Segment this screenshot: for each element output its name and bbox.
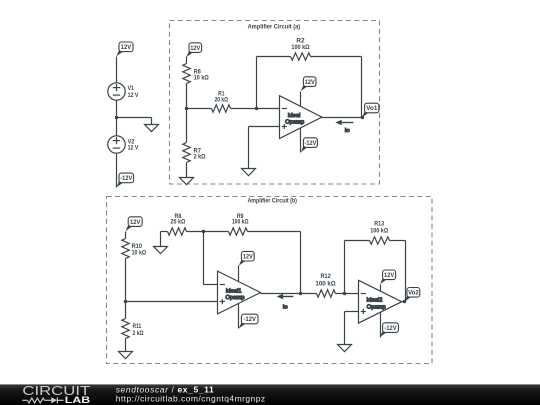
label V1 / 12 V [128, 86, 139, 99]
resistor R1 [212, 105, 231, 112]
svg-text:12V: 12V [130, 220, 140, 226]
label R9 / 100 kΩ [232, 214, 249, 226]
svg-text:io: io [345, 128, 351, 134]
wire: V1 to node A [116, 101, 118, 136]
label R6 / 10 kΩ [194, 70, 209, 82]
wire: Ideal2 negative supply [380, 313, 382, 338]
svg-text:Amplifier Circuit (a): Amplifier Circuit (a) [248, 23, 301, 30]
ground (R11) [119, 352, 133, 359]
wire: node D down to Ideal1 inverting input [203, 232, 205, 285]
op-amp Ideal2 [359, 280, 402, 323]
resistor R6 [183, 64, 190, 84]
dashed box: Amplifier Circuit (a) [170, 21, 380, 185]
label R10 / 10 kΩ [132, 244, 147, 256]
CircuitLab logo: resistor-diode glyph [22, 397, 63, 403]
resistor R8 [168, 228, 187, 235]
svg-text:12V: 12V [384, 273, 394, 279]
wire: R8 to node D [187, 231, 204, 233]
svg-text:R10: R10 [132, 244, 143, 250]
resistor R2 [291, 53, 311, 60]
resistor R13 [370, 237, 390, 244]
net flag -12V (Ideal2 V-) [380, 323, 398, 337]
wire: Ideal2 output stub [402, 301, 406, 303]
svg-text:Ideal2: Ideal2 [367, 297, 383, 303]
svg-text:25 kΩ: 25 kΩ [170, 219, 185, 225]
svg-text:Ideal: Ideal [288, 113, 301, 119]
net flag 12V (V1) [116, 42, 133, 56]
voltage source V2 [108, 136, 125, 153]
current arrow io (circuit a) [335, 120, 353, 134]
resistor R9 [229, 228, 248, 235]
svg-text:12V: 12V [121, 45, 131, 51]
wire: node B to R1 [187, 108, 212, 110]
wire: R12 to node E [336, 293, 359, 295]
wire: U1 positive supply [300, 92, 302, 107]
svg-text:-12V: -12V [384, 326, 396, 332]
svg-text:10 kΩ: 10 kΩ [194, 76, 209, 82]
wire: Ideal2 noninverting input to ground [345, 311, 359, 313]
wire: node D to R9 [204, 231, 229, 233]
dashed box: Amplifier Circuit (b) [107, 197, 433, 364]
wire: R2 to output node [311, 56, 362, 58]
net flag Vo1 [362, 103, 379, 117]
wire: Ideal2 positive supply [380, 285, 382, 292]
wire: R11 to ground [125, 339, 127, 352]
ground (U1 noninverting input) [242, 169, 256, 176]
label R11 / 2 kΩ [133, 324, 144, 337]
op-amp Ideal1 [218, 271, 261, 314]
svg-text:Amplifier Circuit (b): Amplifier Circuit (b) [247, 197, 297, 204]
svg-text:io: io [283, 304, 289, 310]
node: Ideal1 output / R9 feedback [299, 292, 302, 295]
node Vo2 junction [403, 300, 406, 303]
svg-text:2 kΩ: 2 kΩ [194, 155, 206, 161]
wire: Ideal1 output to R12 [261, 293, 317, 295]
wire: U1 negative supply [300, 128, 302, 153]
svg-text:100 kΩ: 100 kΩ [291, 45, 309, 51]
net flag -12V (U1 V-) [301, 138, 318, 152]
wire: R1 to op-amp inverting input [231, 108, 280, 110]
wire: R6 to node B [186, 84, 188, 109]
net flag -12V (V2) [116, 173, 133, 187]
ground (R8) [154, 247, 168, 254]
svg-text:2 kΩ: 2 kΩ [133, 331, 144, 337]
wire: node B to R7 [186, 109, 188, 143]
wire: ground stub to R8 [160, 232, 162, 247]
net flag Vo2 [404, 288, 419, 302]
svg-text:-12V: -12V [120, 176, 132, 182]
node B (R6/R7/R1 junction) [185, 107, 188, 110]
wire: R7 to ground [186, 163, 188, 178]
wire: V2 to -12V flag [116, 154, 118, 188]
label V2 / 12 V [128, 140, 139, 152]
wire: op-amp noninverting input to ground [249, 126, 280, 128]
wire: 12V flag to R10 [125, 232, 127, 239]
wire: R9 to feedback drop [248, 231, 301, 233]
net flag 12V (Ideal2 V+) [380, 270, 396, 284]
node E (R12/R13/Ideal2 inverting) [343, 292, 346, 295]
net flag 12V (R10) [126, 217, 143, 231]
svg-text:100 kΩ: 100 kΩ [315, 281, 335, 287]
resistor R12 [317, 290, 336, 297]
current arrow io (circuit b) [277, 294, 294, 311]
wire: node C to R11 [125, 302, 127, 319]
net flag -12V (Ideal1 V-) [239, 314, 258, 328]
svg-text:R7: R7 [194, 148, 202, 154]
label R13 / 100 kΩ [370, 221, 388, 234]
svg-text:Opamp: Opamp [285, 119, 304, 125]
wire: node E up to R13 [344, 241, 346, 294]
ground (node A) [145, 125, 159, 132]
resistor R7 [183, 143, 190, 163]
node: U1 inverting input / R2 feedback [255, 107, 258, 110]
ground (R7) [180, 178, 194, 185]
svg-text:R12: R12 [320, 274, 331, 280]
op-amp U1 (Ideal Opamp) [280, 96, 322, 139]
voltage source V1 [108, 83, 125, 100]
svg-text:LAB: LAB [65, 395, 90, 405]
ground (Ideal2 noninverting input) [338, 345, 352, 352]
svg-text:-12V: -12V [305, 141, 317, 147]
wire: R10 to node C [125, 259, 127, 302]
label R7 / 2 kΩ [194, 148, 206, 160]
label R2 / 100 kΩ [291, 38, 309, 51]
svg-text:Opamp: Opamp [367, 305, 386, 311]
svg-text:Opamp: Opamp [225, 295, 244, 301]
svg-text:-12V: -12V [244, 317, 256, 323]
resistor R11 [122, 319, 129, 339]
svg-text:100 kΩ: 100 kΩ [370, 229, 388, 235]
resistor R10 [122, 239, 129, 259]
svg-text:R11: R11 [133, 324, 142, 330]
wire: feedback node up to R2 [256, 57, 258, 109]
svg-text:12 V: 12 V [128, 93, 139, 99]
svg-text:20 kΩ: 20 kΩ [215, 98, 229, 104]
net flag 12V (R6) [186, 43, 201, 57]
wire: Ideal1 negative supply [238, 304, 240, 329]
svg-text:12V: 12V [305, 80, 315, 86]
node A (V1-V2 junction) [115, 116, 118, 119]
net flag 12V (Ideal1 V+) [239, 251, 254, 265]
label R1 / 20 kΩ [215, 92, 229, 104]
svg-text:R13: R13 [374, 221, 385, 227]
svg-text:12V: 12V [190, 46, 200, 52]
wire: op-amp U1 output to Vo1 node [322, 117, 363, 119]
svg-text:10 kΩ: 10 kΩ [132, 250, 147, 256]
svg-text:Vo2: Vo2 [408, 291, 419, 297]
svg-text:Ideal1: Ideal1 [226, 288, 242, 294]
node D (R8/R9 junction) [202, 230, 205, 233]
wire: node A to ground stub [117, 117, 152, 119]
svg-text:100 kΩ: 100 kΩ [232, 219, 249, 225]
wire: Ideal1 positive supply [238, 266, 240, 282]
label R12 / 100 kΩ [315, 274, 335, 288]
svg-text:Vo1: Vo1 [366, 106, 378, 112]
node C (R10/R11 junction) [124, 300, 127, 303]
svg-text:12 V: 12 V [128, 145, 139, 151]
svg-text:http://circuitlab.com/cngntq4m: http://circuitlab.com/cngntq4mrgnpz [116, 394, 266, 404]
wire: node C to Ideal1 noninverting input [126, 301, 218, 303]
wire: R13 to Vo2 node [390, 240, 406, 242]
node Vo1 junction [361, 116, 364, 119]
svg-text:R2: R2 [296, 38, 305, 44]
wire: 12V flag to R6 [186, 57, 188, 64]
label R8 / 25 kΩ [170, 214, 185, 226]
svg-text:V1: V1 [128, 86, 135, 92]
svg-text:12V: 12V [243, 254, 253, 260]
net flag 12V (U1 V+) [301, 77, 316, 91]
wire: 12V flag to V1 [116, 57, 118, 84]
